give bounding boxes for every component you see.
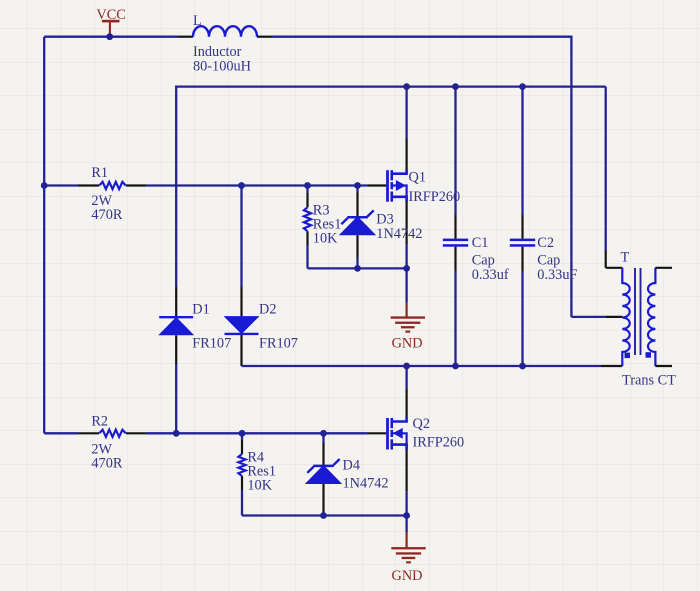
svg-text:FR107: FR107 [259,335,298,351]
svg-text:D4: D4 [343,457,360,473]
svg-text:1N4742: 1N4742 [376,226,422,242]
svg-text:VCC: VCC [96,7,125,23]
svg-text:D2: D2 [259,302,276,318]
svg-text:R1: R1 [91,165,108,181]
svg-text:GND: GND [392,336,423,352]
svg-text:Q1: Q1 [409,169,426,185]
svg-text:0.33uf: 0.33uf [472,267,509,283]
svg-text:Trans CT: Trans CT [622,373,676,389]
svg-text:GND: GND [392,568,423,584]
svg-text:470R: 470R [91,207,122,223]
svg-text:R2: R2 [91,413,108,429]
svg-text:C1: C1 [472,235,489,251]
svg-text:Q2: Q2 [413,416,430,432]
svg-text:IRFP260: IRFP260 [409,189,461,205]
svg-text:470R: 470R [91,455,122,471]
svg-text:10K: 10K [313,230,338,246]
svg-text:D1: D1 [192,302,209,318]
svg-text:1N4742: 1N4742 [343,476,389,492]
svg-text:80-100uH: 80-100uH [193,58,251,74]
svg-text:0.33uF: 0.33uF [537,267,577,283]
svg-text:C2: C2 [537,235,554,251]
svg-text:IRFP260: IRFP260 [413,435,465,451]
svg-text:T: T [621,249,630,265]
svg-text:10K: 10K [247,478,272,494]
svg-text:L: L [193,13,202,29]
svg-text:FR107: FR107 [192,335,231,351]
